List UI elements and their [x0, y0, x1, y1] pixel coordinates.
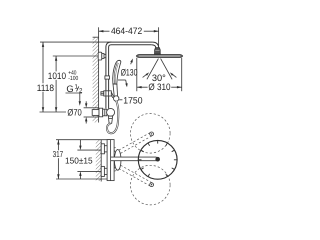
svg-text:317: 317 — [53, 149, 64, 159]
svg-text:150±15: 150±15 — [65, 156, 93, 166]
svg-text:1750: 1750 — [123, 95, 142, 105]
svg-text:Ø70: Ø70 — [67, 107, 81, 117]
svg-text:1118: 1118 — [37, 83, 54, 93]
svg-text:G: G — [66, 83, 73, 94]
svg-text:1010: 1010 — [48, 71, 66, 81]
svg-text:Ø 310: Ø 310 — [148, 82, 170, 92]
svg-text:Ø130: Ø130 — [121, 68, 138, 78]
svg-text:464-472: 464-472 — [111, 26, 142, 36]
svg-text:-100: -100 — [68, 75, 79, 82]
